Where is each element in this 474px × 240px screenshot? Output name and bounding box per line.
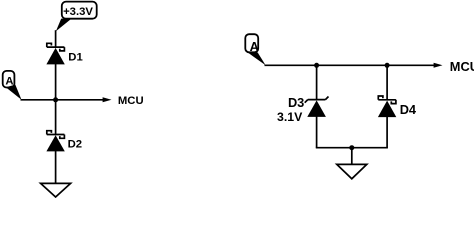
label D4 [400,102,417,117]
svg-text:D4: D4 [400,102,417,117]
label D1 [68,52,82,64]
diode D1 (Schottky) [46,43,64,64]
label D2 [68,139,82,151]
wire: D3 anode to ground rail [316,117,318,148]
wire: rail to ground symbol [351,148,353,165]
junction dot at D3 tap [314,63,319,68]
wire: +3.3V flag to D1 cathode [55,30,57,47]
svg-text:+3.3V: +3.3V [63,6,93,18]
node A flag (left) [3,71,22,100]
wire: D4 tap to D4 cathode [386,65,388,100]
svg-text:MCU: MCU [450,59,474,74]
node A flag (right) [245,34,265,65]
wire: node A junction to D2 cathode [55,100,57,135]
wire: node A to MCU arrow (right) [265,64,435,66]
label MCU (right) [450,59,474,74]
power flag +3.3V [56,2,97,32]
wire: node A to MCU arrow [21,99,104,101]
wire: D2 anode to ground [55,151,57,183]
arrow to MCU (left) [103,97,112,102]
wire: D4 anode to ground rail [386,117,388,148]
arrow to MCU (right) [434,63,443,68]
wire: D1 anode to node A junction [55,64,57,100]
junction dot on ground rail [349,145,354,150]
zener diode D3 [305,97,329,117]
value label 3.1V [277,110,303,124]
wire: D3 tap to D3 cathode [316,65,318,99]
ground (left) [41,183,71,197]
ground (right) [337,164,367,178]
label MCU (left) [118,95,144,107]
label D3 [288,95,304,110]
svg-text:D3: D3 [288,95,304,110]
svg-text:3.1V: 3.1V [277,110,303,124]
wire: ground rail [316,147,388,149]
junction dot at node A / left [53,97,58,102]
svg-text:D2: D2 [68,139,82,151]
svg-text:MCU: MCU [118,95,144,107]
diode D2 (Schottky) [46,131,64,152]
diode D4 (Schottky) [378,96,396,117]
svg-text:D1: D1 [68,52,82,64]
svg-text:A: A [250,39,259,54]
junction dot at D4 tap [385,63,390,68]
